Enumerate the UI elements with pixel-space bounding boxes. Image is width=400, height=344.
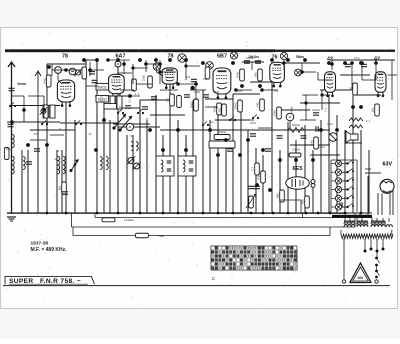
svg-text:4m: 4m — [130, 135, 133, 138]
svg-text:50k: 50k — [186, 76, 191, 79]
svg-text:50kΩ: 50kΩ — [44, 78, 47, 84]
svg-text:50kΩm: 50kΩm — [292, 124, 300, 127]
svg-text:50k: 50k — [34, 133, 39, 136]
svg-text:0.1: 0.1 — [167, 98, 170, 102]
svg-text:10kΩ: 10kΩ — [311, 140, 314, 146]
svg-text:42: 42 — [374, 56, 380, 62]
svg-text:5kΩ2: 5kΩ2 — [101, 95, 104, 102]
svg-text:25kΩ: 25kΩ — [250, 122, 256, 125]
svg-text:1.10kΩ2: 1.10kΩ2 — [124, 218, 134, 222]
svg-text:1937-38: 1937-38 — [31, 241, 49, 247]
svg-text:50kΩ: 50kΩ — [258, 174, 261, 180]
svg-text:63V: 63V — [383, 162, 393, 168]
svg-text:2kΩ: 2kΩ — [238, 90, 243, 93]
svg-text:750Ω: 750Ω — [158, 234, 164, 238]
svg-text:2MΩ: 2MΩ — [255, 72, 258, 77]
svg-text:3kΩ: 3kΩ — [59, 186, 62, 191]
svg-text:1MΩ2: 1MΩ2 — [213, 91, 220, 94]
svg-text:150kΩ: 150kΩ — [235, 102, 238, 109]
svg-text:0.5: 0.5 — [135, 93, 140, 96]
svg-text:50kΩ: 50kΩ — [191, 102, 194, 108]
svg-text:25kΩ: 25kΩ — [143, 75, 146, 81]
svg-text:6E5: 6E5 — [293, 166, 303, 172]
svg-text:0.1: 0.1 — [366, 120, 371, 123]
svg-text:0010: 0010 — [6, 148, 12, 151]
svg-text:6B7: 6B7 — [217, 54, 227, 60]
svg-text:78: 78 — [62, 53, 68, 59]
svg-text:50kΩ: 50kΩ — [237, 72, 240, 78]
svg-text:400: 400 — [358, 276, 364, 280]
svg-text:58km: 58km — [296, 55, 304, 59]
svg-text:2kΩ: 2kΩ — [219, 108, 222, 113]
svg-text:10kΩm: 10kΩm — [312, 109, 320, 112]
svg-text:400kΩ: 400kΩ — [218, 131, 225, 134]
svg-text:5MΩ: 5MΩ — [257, 102, 260, 107]
svg-text:6mm: 6mm — [18, 82, 26, 86]
svg-text:1kΩ: 1kΩ — [372, 108, 375, 113]
svg-text:10kΩm: 10kΩm — [246, 57, 254, 60]
svg-text:5MΩm: 5MΩm — [291, 106, 294, 113]
svg-text:0.5: 0.5 — [129, 99, 132, 103]
svg-text:250: 250 — [274, 90, 279, 93]
svg-text:0.1: 0.1 — [325, 108, 328, 112]
svg-text:50km: 50km — [327, 123, 333, 126]
svg-text:M.F. = 489 KHz.: M.F. = 489 KHz. — [31, 247, 68, 253]
svg-text:1MΩ: 1MΩ — [79, 70, 82, 75]
svg-text:10km: 10km — [319, 146, 325, 149]
svg-text:1MΩ: 1MΩ — [277, 193, 280, 198]
svg-text:25kΩ: 25kΩ — [194, 91, 200, 94]
svg-text:5MΩ2: 5MΩ2 — [97, 85, 106, 89]
svg-text:1MΩ: 1MΩ — [203, 78, 208, 81]
svg-text:0.1m: 0.1m — [354, 57, 360, 60]
svg-text:1MΩ: 1MΩ — [302, 199, 305, 204]
svg-text:25kΩ: 25kΩ — [274, 110, 277, 116]
svg-text:0.5MΩ: 0.5MΩ — [292, 149, 300, 152]
